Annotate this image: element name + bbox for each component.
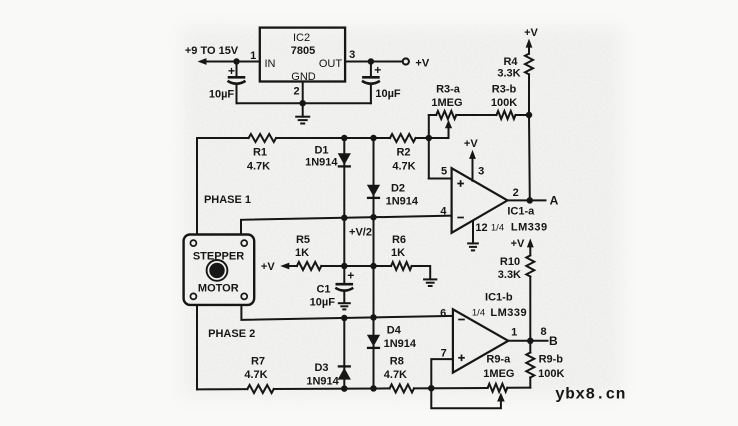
svg-text:1/4: 1/4 [491,223,504,234]
svg-text:R2: R2 [396,146,410,158]
svg-text:+V/2: +V/2 [349,226,372,238]
svg-text:100K: 100K [491,97,517,109]
svg-text:PHASE 2: PHASE 2 [208,328,255,340]
svg-text:1MEG: 1MEG [483,368,514,380]
svg-text:100K: 100K [538,368,564,380]
svg-text:1K: 1K [391,247,405,259]
svg-text:R10: R10 [500,256,520,268]
svg-text:+: + [228,64,235,78]
svg-text:A: A [550,194,559,208]
svg-text:+V: +V [524,27,538,39]
svg-text:STEPPER: STEPPER [193,250,244,262]
svg-text:R3-a: R3-a [436,83,461,95]
svg-text:1MEG: 1MEG [431,97,462,109]
svg-text:R4: R4 [503,56,518,68]
svg-text:GND: GND [291,71,316,83]
svg-text:1: 1 [250,50,256,62]
svg-text:1N914: 1N914 [306,375,339,387]
svg-text:4: 4 [440,205,447,217]
svg-text:3: 3 [349,49,355,61]
svg-text:R9-b: R9-b [539,353,564,365]
svg-text:R1: R1 [253,146,267,158]
svg-text:PHASE 1: PHASE 1 [204,194,251,206]
svg-text:IC1-b: IC1-b [485,292,513,304]
svg-text:2: 2 [513,187,519,199]
svg-text:C1: C1 [316,283,330,295]
svg-text:2: 2 [293,85,299,97]
svg-text:D1: D1 [314,144,328,156]
svg-text:+V: +V [464,138,478,150]
svg-text:IN: IN [265,58,276,70]
svg-text:12: 12 [475,222,487,234]
svg-text:4.7K: 4.7K [384,369,407,381]
svg-text:10µF: 10µF [375,88,401,100]
svg-text:7: 7 [441,347,447,359]
svg-text:7805: 7805 [291,45,315,57]
svg-text:4.7K: 4.7K [247,160,270,172]
svg-text:1/4: 1/4 [472,308,485,319]
svg-text:+V: +V [415,57,429,69]
svg-text:D2: D2 [391,182,405,194]
svg-text:4.7K: 4.7K [244,369,267,381]
svg-text:LM339: LM339 [511,221,548,233]
svg-text:R5: R5 [296,234,310,246]
svg-text:OUT: OUT [319,58,343,70]
svg-text:R8: R8 [390,356,404,368]
svg-text:LM339: LM339 [490,307,527,319]
svg-text:8: 8 [541,326,547,338]
svg-text:5: 5 [441,166,447,178]
svg-text:R3-b: R3-b [492,83,517,95]
svg-text:3.3K: 3.3K [498,269,521,281]
svg-text:1N914: 1N914 [305,156,338,168]
svg-text:1N914: 1N914 [384,338,417,350]
svg-text:D3: D3 [314,362,328,374]
svg-text:ybx8.cn: ybx8.cn [555,385,626,403]
svg-text:3.3K: 3.3K [497,67,520,79]
svg-text:6: 6 [440,308,446,320]
svg-text:R7: R7 [251,356,265,368]
svg-text:1: 1 [511,326,517,338]
svg-text:R9-a: R9-a [486,353,511,365]
svg-text:+: + [374,63,381,77]
svg-text:4.7K: 4.7K [392,160,415,172]
svg-text:D4: D4 [387,324,402,336]
svg-text:B: B [549,334,558,348]
svg-text:1K: 1K [295,247,309,259]
svg-text:+: + [347,269,354,283]
svg-text:3: 3 [478,166,484,178]
svg-text:10µF: 10µF [209,88,235,100]
svg-text:IC1-a: IC1-a [507,206,535,218]
svg-text:+V: +V [511,238,525,250]
svg-text:+9 TO 15V: +9 TO 15V [185,45,239,57]
svg-text:10µF: 10µF [310,296,336,308]
svg-text:MOTOR: MOTOR [198,283,239,295]
svg-text:R6: R6 [392,234,406,246]
svg-text:+V: +V [261,261,275,273]
svg-text:IC2: IC2 [293,32,310,44]
svg-text:1N914: 1N914 [386,196,419,208]
